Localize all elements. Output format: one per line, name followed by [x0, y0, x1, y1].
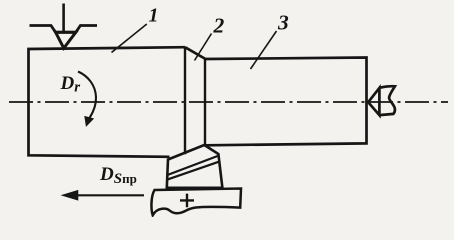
- tailstock centre flag: [379, 86, 395, 115]
- holder plus mark: [180, 194, 194, 208]
- svg-text:DSпр: DSпр: [99, 164, 137, 187]
- leader line 2: [195, 34, 212, 61]
- cone shoulder top edge (part 2): [185, 47, 206, 59]
- feed arrowhead: [62, 191, 78, 200]
- step line at x=185: [184, 47, 186, 154]
- svg-text:1: 1: [149, 4, 159, 26]
- rotation arc Dr: [78, 72, 96, 119]
- step line at x=205: [204, 59, 206, 145]
- leader line 1: [112, 24, 147, 53]
- workpiece large cylinder (part 1): [29, 47, 186, 157]
- clamp symbol triangle: [56, 32, 76, 48]
- clamp symbol stepped bar: [30, 26, 98, 33]
- rotation arrowhead: [85, 117, 93, 126]
- svg-text:3: 3: [277, 11, 289, 35]
- feed arrow line: [78, 194, 145, 196]
- cutting tool body: [167, 145, 223, 188]
- workpiece small cylinder (part 3): [205, 58, 367, 146]
- clamp symbol stem: [62, 4, 65, 32]
- centerline (axis, dash-dot): [9, 101, 448, 103]
- tailstock centre triangle: [368, 88, 379, 115]
- tool insert line upper: [167, 156, 218, 175]
- tool insert line lower: [167, 162, 219, 180]
- svg-text:2: 2: [213, 14, 225, 38]
- leader line 3: [251, 31, 277, 69]
- tool holder block: [151, 189, 241, 216]
- svg-text:Dr: Dr: [60, 73, 81, 96]
